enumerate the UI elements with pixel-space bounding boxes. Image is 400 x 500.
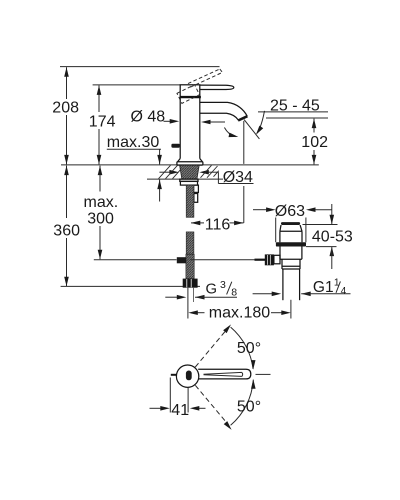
top reference line (208 max height) [60,66,220,68]
hose to nut section [186,254,194,278]
svg-text:174: 174 [89,114,116,131]
deck hatching right [201,165,219,177]
svg-text:G: G [206,281,218,297]
bottom view: faucet base circle [176,365,198,387]
svg-text:Ø63: Ø63 [275,203,305,220]
bottom view: dashed swivel lines 50° [195,332,225,421]
bottom view: lever [198,369,251,379]
flexible hose upper [186,185,194,217]
mounting washer [180,179,198,181]
svg-text:Ø 48: Ø 48 [131,109,166,126]
bottom view: 50° arcs [231,327,254,369]
faucet: dashed hub outline [177,85,200,104]
drain: ball joint housing [274,255,280,263]
faucet: spout [200,102,247,116]
drain: body [279,247,281,260]
svg-text:50°: 50° [237,340,261,357]
svg-text:G1: G1 [313,279,334,296]
G 3/8 connection nut [183,279,198,288]
deck top line [61,164,319,166]
svg-text:8: 8 [231,287,237,299]
faucet: pop-up lever stub [171,144,180,148]
svg-text:40-53: 40-53 [312,229,353,246]
drain: knurled knob [265,254,274,265]
leader arrow to stream [257,111,265,133]
dimension 208 [66,67,68,99]
svg-text:Ø34: Ø34 [223,169,253,186]
threaded stud [194,185,199,192]
max.300 reference line merging into pop-up rod [94,259,177,261]
threaded shank through deck [180,165,200,179]
mounting nut [180,181,197,185]
drain: taper [280,225,281,231]
curved range arrow [224,128,235,137]
dimension 102 [313,119,315,133]
faucet: body flare to base [178,159,181,162]
deck hatching left [159,165,181,178]
svg-text:4: 4 [341,286,347,297]
faucet: base flange [177,162,203,165]
dimension max.300 [99,166,101,192]
drain: Ø63 dimension [253,209,267,211]
svg-text:41: 41 [171,402,189,419]
bottom view: pop-up rod stub [171,374,177,376]
bottom view: lever axis reference [256,373,271,375]
faucet: aerator outlet face [238,116,247,120]
svg-text:116: 116 [205,217,231,234]
bottom view: cartridge slot [186,371,192,381]
label G 1 1/4 [253,293,273,295]
svg-text:max.180: max.180 [209,304,270,321]
spout tip extension line [243,121,245,164]
dimension 360 [66,166,68,218]
svg-text:208: 208 [52,99,79,116]
label G 3/8 [165,296,177,298]
drain: upper cylinder [279,231,281,242]
faucet: lever hub [180,85,200,97]
dimension 174 [98,85,100,112]
svg-text:102: 102 [301,134,328,151]
supply pipe below nut [187,288,189,319]
svg-text:300: 300 [87,211,114,228]
faucet: dashed lever rod (raised position) [177,69,222,103]
svg-text:50°: 50° [237,398,261,415]
svg-text:max.: max. [84,194,119,211]
drain: lower collar [281,259,283,269]
360 reference line [61,285,200,287]
drain: flange [276,242,306,246]
drain: tailpipe [282,269,284,300]
pop-up rod clamp block [177,257,186,263]
deck bottom line [147,178,223,180]
spout height reference line [266,117,328,119]
faucet: body sides [179,97,181,159]
drain: pop-up waste top cap [281,222,300,225]
174 reference line [93,84,181,86]
water stream line [244,120,259,139]
dimension 40-53 [331,204,333,224]
pop-up rod (horizontal) [190,259,254,261]
svg-text:3: 3 [220,279,226,291]
dimension max.180 [198,312,205,314]
dimension 116 (spout reach) [191,222,204,224]
flexible hose lower [186,232,194,254]
svg-text:1: 1 [334,278,340,289]
svg-text:max.30: max.30 [107,134,160,151]
dimension 41 [169,378,171,413]
dimension Ø34 [159,171,170,173]
svg-text:360: 360 [53,222,80,239]
faucet: lever rod [200,85,234,89]
